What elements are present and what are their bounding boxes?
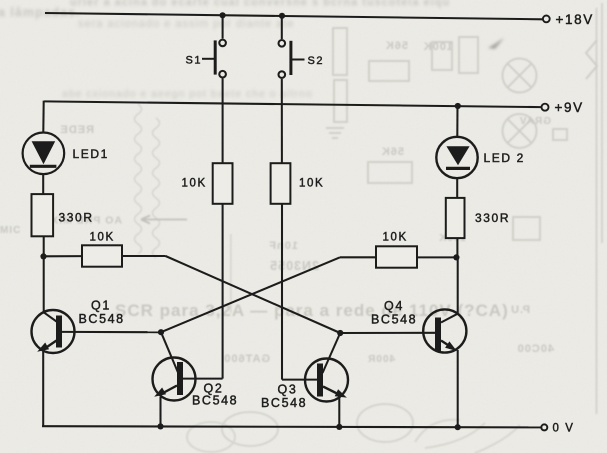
wire S2 column down to Q3 collector [281, 204, 283, 380]
node A (Q1 base) [158, 329, 164, 335]
wire S1 column down to Q2 collector [222, 204, 224, 379]
svg-text:330R: 330R [475, 211, 510, 225]
wire 330R right to node [456, 238, 458, 257]
transistor Q3 [282, 333, 348, 427]
LED LED1 [23, 133, 65, 175]
switch S1 [202, 40, 226, 78]
svg-text:BC548: BC548 [371, 313, 417, 327]
wire LED2 to 330R [456, 178, 458, 198]
wire +9V dot to LED2 [456, 106, 458, 137]
wire S2 top lead [281, 16, 283, 39]
node junction +9V / LED2 column [455, 103, 461, 109]
node junction S1 top [220, 12, 226, 18]
svg-text:Q4: Q4 [384, 299, 404, 313]
resistor 10K (left coupling) [82, 245, 122, 266]
transistor Q4 [340, 257, 466, 427]
svg-text:GRAV: GRAV [519, 116, 551, 127]
wire S1 to 10K [222, 78, 224, 163]
node junction 330R right / 10K [453, 254, 459, 260]
wire diagonal right-10K to node A [161, 257, 340, 332]
switch S2 [279, 40, 305, 78]
svg-text:10K: 10K [90, 232, 115, 244]
terminal +9V [542, 104, 549, 111]
svg-text:330R: 330R [59, 211, 94, 225]
svg-text:REDE: REDE [59, 124, 94, 136]
wire LED1 to 330R [42, 174, 44, 194]
resistor 330R (left) [32, 194, 54, 236]
node A1 (Q1 collector / 330R / 10K) [40, 253, 46, 259]
wire node to 10K left [44, 255, 83, 257]
wire right 10K right lead [417, 256, 456, 258]
svg-text:400R: 400R [367, 354, 395, 365]
resistor 10K (S1 column) [213, 163, 233, 204]
svg-text:LED 2: LED 2 [484, 151, 525, 165]
svg-text:sera acionado e assim por dian: sera acionado e assim por diante ate [78, 18, 294, 30]
svg-text:10nF: 10nF [268, 240, 298, 252]
svg-text:10K: 10K [299, 178, 324, 190]
svg-text:+9V: +9V [555, 100, 584, 115]
svg-text:GAT600: GAT600 [223, 353, 270, 365]
svg-text:MIC: MIC [0, 225, 21, 236]
node junction S2 top [279, 13, 285, 19]
svg-text:2N3055: 2N3055 [269, 259, 319, 273]
terminal 0V [541, 424, 547, 430]
wire 10K left to diagonal [122, 255, 166, 257]
svg-text:P.U: P.U [510, 304, 530, 316]
wire right 10K left lead [340, 256, 376, 258]
svg-text:56K: 56K [381, 146, 404, 158]
svg-text:Q1: Q1 [91, 299, 111, 313]
svg-text:Q3: Q3 [278, 383, 298, 397]
svg-text:BC548: BC548 [192, 394, 238, 408]
resistor 330R (right) [446, 198, 465, 238]
svg-text:10K: 10K [182, 178, 207, 190]
svg-text:S1: S1 [186, 54, 203, 66]
wire diagonal left-10K to node B [166, 256, 341, 333]
wire +9V rail [44, 101, 541, 107]
svg-text:abe cxionado e aeegn pot baete: abe cxionado e aeegn pot baete che o alt… [62, 88, 313, 100]
svg-text:+18V: +18V [556, 12, 594, 27]
resistor 10K (right coupling) [376, 246, 417, 267]
node junction Q4 emitter [455, 424, 461, 430]
wire left column to LED1 [42, 101, 44, 133]
LED LED2 [436, 137, 477, 178]
svg-text:LED1: LED1 [73, 147, 109, 161]
svg-text:BC548: BC548 [261, 396, 307, 410]
svg-text:56K: 56K [385, 40, 408, 52]
node B (Q4 base) [337, 330, 343, 336]
terminal +18V [543, 16, 550, 23]
svg-text:40C00: 40C00 [517, 343, 554, 355]
wire top +18V rail [45, 13, 543, 19]
svg-text:S2: S2 [308, 55, 325, 67]
node junction Q3 emitter [336, 424, 342, 430]
svg-text:urler a acina do ecarte cual c: urler a acina do ecarte cual conversne s… [70, 0, 450, 9]
svg-text:0 V: 0 V [553, 422, 575, 434]
node junction Q2 emitter [157, 423, 163, 429]
wire bottom 0V rail [42, 426, 541, 427]
transistor Q1 [32, 256, 162, 426]
transistor Q2 [153, 332, 223, 426]
wire S2 to 10K [281, 79, 283, 163]
wire 330R to node [43, 236, 45, 256]
wire S1 top lead [222, 15, 224, 38]
resistor 10K (S2 column) [271, 163, 291, 204]
svg-text:10K: 10K [383, 232, 408, 244]
svg-text:BC548: BC548 [79, 312, 125, 326]
